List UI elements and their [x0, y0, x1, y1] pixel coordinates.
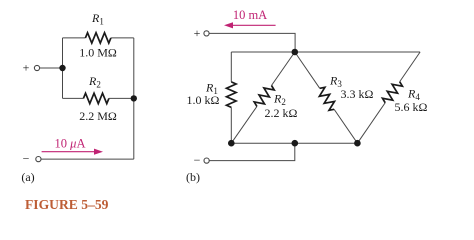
wire: (b) - terminal lead: [209, 143, 295, 160]
svg-text:R2: R2: [88, 74, 101, 90]
resistor R1 (b) 1.0 kohm zigzag: [227, 82, 237, 108]
svg-text:R1: R1: [91, 11, 104, 27]
svg-text:10 μA: 10 μA: [55, 136, 86, 150]
svg-text:+: +: [194, 26, 201, 40]
wire: (a) middle rail with resistor gap: [63, 97, 84, 99]
svg-text:FIGURE 5–59: FIGURE 5–59: [25, 197, 109, 212]
wire: (a) top rail with resistor gap: [63, 37, 86, 39]
terminal: (a) + open circle: [34, 65, 39, 70]
wire: (b) + terminal lead: [209, 33, 295, 52]
svg-text:2.2 kΩ: 2.2 kΩ: [265, 106, 298, 120]
svg-text:R2: R2: [273, 92, 286, 108]
wire: (a) right vertical: [133, 38, 135, 159]
svg-text:1.0 kΩ: 1.0 kΩ: [187, 93, 220, 107]
resistor R1 (a) 1.0 Mohm zigzag: [85, 33, 111, 43]
wire: (b) bottom rail: [231, 142, 357, 144]
svg-text:3.3 kΩ: 3.3 kΩ: [341, 87, 374, 101]
svg-text:(a): (a): [21, 170, 34, 184]
svg-text:(b): (b): [186, 170, 200, 184]
svg-text:10 mA: 10 mA: [233, 8, 267, 22]
svg-text:5.6 kΩ: 5.6 kΩ: [395, 100, 428, 114]
wire: (a) left vertical: [62, 38, 64, 99]
arrow: (a) current direction right: [42, 151, 96, 153]
node: (b) top junction: [292, 49, 299, 56]
wire: (a) + terminal lead: [40, 67, 63, 69]
wire: (b) top rail: [231, 51, 420, 53]
svg-text:2.2 MΩ: 2.2 MΩ: [79, 109, 117, 123]
node: (a) input junction: [59, 65, 65, 71]
terminal: (a) - open circle: [36, 157, 41, 162]
wire: (b) R1 branch vertical: [230, 52, 232, 82]
resistor R2 (a) 2.2 Mohm zigzag: [83, 93, 109, 103]
node: (b) bottom-right junction: [354, 140, 361, 147]
resistor R4 (b) 5.6 kohm zigzag: [382, 82, 402, 103]
svg-text:−: −: [23, 152, 30, 166]
wire: (b) R4 branch diagonal: [400, 52, 420, 82]
wire: (b) R3 branch diagonal: [295, 52, 320, 88]
terminal: (b) + open circle: [204, 31, 209, 36]
node: (a) right junction: [131, 95, 137, 101]
node: (b) bottom-left junction: [228, 140, 235, 147]
arrow: (b) current direction left: [231, 24, 276, 26]
resistor R3 (b) 3.3 kohm zigzag: [319, 87, 334, 110]
wire: (a) bottom rail: [41, 158, 134, 160]
resistor R2 (b) 2.2 kohm zigzag: [254, 86, 274, 107]
svg-text:+: +: [23, 61, 30, 75]
svg-text:1.0 MΩ: 1.0 MΩ: [79, 46, 117, 60]
svg-text:−: −: [194, 153, 201, 167]
node: (b) bottom-middle junction: [292, 140, 299, 147]
wire: (b) R2 branch diagonal: [271, 52, 294, 86]
terminal: (b) - open circle: [204, 158, 209, 163]
